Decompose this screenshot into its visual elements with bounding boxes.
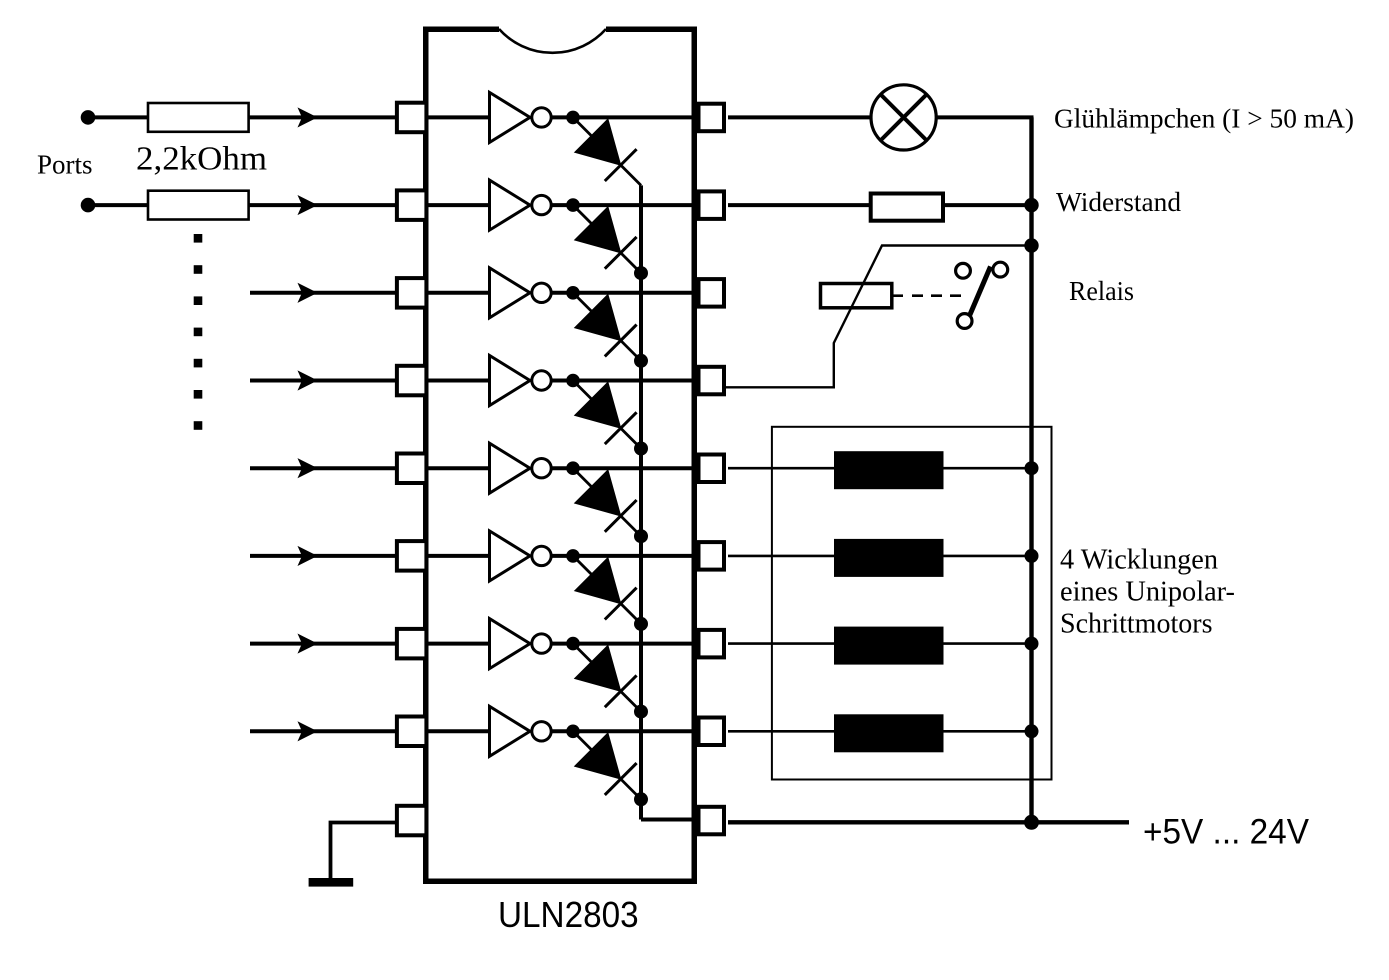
IC U1 pin-1 index notch arc: [499, 29, 606, 53]
resistor 2,2kOhm (input series) row 2: [148, 191, 249, 220]
wire: relay coil to +V bus and to output pin row 4: [724, 246, 1032, 388]
wire: output pin row 7 to motor winding 3: [728, 642, 836, 645]
svg-text:Ports: Ports: [37, 149, 93, 179]
wire: output pin row 2 to load resistor: [728, 203, 872, 207]
relay contact terminals: [956, 263, 971, 278]
pin 10 (right, output side) of U1: [699, 807, 725, 835]
wire: input row 7 to IC pin with direction arrow: [250, 642, 397, 646]
wire: inverter 3 output to output pin row 3: [551, 291, 694, 295]
pin 15 (right, output side) of U1: [699, 279, 725, 307]
stepper motor outline box: [772, 427, 1052, 780]
node: winding 2 junction on +V bus: [1025, 549, 1039, 563]
wire: winding 2 to +V bus: [944, 555, 1032, 558]
node: winding 1 junction on +V bus: [1025, 461, 1039, 475]
node: junction dot channel 6 output: [566, 549, 580, 563]
ground symbol: [309, 878, 354, 887]
wire: output pin row 1 to lamp: [728, 115, 872, 119]
svg-text:Glühlämpchen (I > 50 mA): Glühlämpchen (I > 50 mA): [1054, 104, 1354, 134]
wire: input row 1 to IC pin with direction arrow: [249, 115, 397, 119]
arrowhead input row 8: [299, 722, 317, 740]
node: resistor junction on +V bus: [1024, 198, 1038, 212]
arrowhead input row 6: [299, 547, 317, 565]
svg-text:Relais: Relais: [1069, 276, 1134, 306]
inverter/darlington driver U1 channel 7: [490, 619, 552, 669]
node: junction dot channel 7 output: [566, 637, 580, 651]
node: junction dot channel 5 output: [566, 461, 580, 475]
svg-text:ULN2803: ULN2803: [498, 894, 639, 935]
inverter/darlington driver U1 channel 8: [490, 706, 552, 756]
wire: input pin 2 to inverter 2 inside IC: [428, 203, 490, 207]
pin 3 (left, input side) of U1: [397, 278, 427, 308]
svg-text:eines Unipolar-: eines Unipolar-: [1060, 577, 1235, 608]
node: junction dot channel 4 output: [566, 374, 580, 388]
wire: input row 6 to IC pin with direction arrow: [250, 554, 397, 558]
wire: port 2 to series resistor: [94, 203, 149, 207]
flyback diode D8 to common bus: [573, 731, 641, 799]
wire: inverter 2 output to output pin row 2: [551, 203, 694, 207]
pin 14 (right, output side) of U1: [699, 367, 725, 395]
pin 4 (left, input side) of U1: [397, 366, 427, 396]
wire: inverter 1 output to output pin row 1: [551, 115, 694, 119]
motor winding L2 (black bar): [834, 539, 944, 577]
node: diode D4 junction on common bus: [634, 442, 648, 456]
node: diode D8 junction on common bus: [634, 792, 648, 806]
wire: input row 2 to IC pin with direction arrow: [249, 203, 397, 207]
svg-text:Widerstand: Widerstand: [1056, 187, 1182, 217]
node: diode D7 junction on common bus: [634, 705, 648, 719]
port input node dot 1: [81, 110, 96, 125]
node: junction dot channel 8 output: [566, 725, 580, 739]
wire: lamp to +V bus: [936, 115, 1033, 119]
wire: COM pin (row 9) to +V supply: [728, 820, 1129, 824]
wire: input row 3 to IC pin with direction arrow: [250, 291, 397, 295]
flyback diode D6 to common bus: [573, 556, 641, 624]
flyback diode D4 to common bus: [573, 381, 641, 449]
resistor 2,2kOhm (input series) row 1: [148, 103, 249, 132]
inverter/darlington driver U1 channel 2: [490, 180, 552, 230]
svg-text:4 Wicklungen: 4 Wicklungen: [1060, 545, 1218, 576]
IC U1 body bottom edge: [423, 879, 697, 885]
pin 12 (right, output side) of U1: [699, 542, 725, 570]
port input node dot 2: [81, 198, 96, 213]
mechanical link (dashed) coil to contact: [893, 294, 903, 297]
flyback diode D1 to common bus: [573, 117, 641, 185]
pin 1 (left, input side) of U1: [397, 103, 427, 133]
wire: input pin 5 to inverter 5 inside IC: [428, 466, 490, 470]
wire: input pin 6 to inverter 6 inside IC: [428, 554, 490, 558]
wire: output pin row 6 to motor winding 2: [728, 555, 836, 558]
node: junction dot channel 2 output: [566, 198, 580, 212]
wire: input row 5 to IC pin with direction arrow: [250, 466, 397, 470]
motor winding L1 (black bar): [834, 451, 944, 489]
inverter/darlington driver U1 channel 4: [490, 356, 552, 406]
arrowhead input row 7: [299, 635, 317, 653]
node: supply junction on +V bus: [1024, 815, 1039, 830]
IC U1 ULN2803 body left edge: [423, 27, 429, 885]
node: diode D2 junction on common bus: [634, 266, 648, 280]
flyback diode D2 to common bus: [573, 205, 641, 273]
flyback diode D7 to common bus: [573, 644, 641, 712]
resistor (Widerstand) R load: [871, 194, 943, 221]
wire: winding 1 to +V bus: [944, 467, 1032, 470]
pin 16 (right, output side) of U1: [699, 191, 725, 219]
inverter/darlington driver U1 channel 6: [490, 531, 552, 581]
wire: inverter 7 output to output pin row 7: [551, 642, 694, 646]
relay coil K1: [821, 284, 892, 308]
wire: input pin 7 to inverter 7 inside IC: [428, 642, 490, 646]
arrowhead input row 3: [299, 284, 317, 302]
wire: inverter 8 output to output pin row 8: [551, 729, 694, 733]
wire: winding 4 to +V bus: [944, 730, 1032, 733]
pin 13 (right, output side) of U1: [699, 455, 725, 483]
pin 6 (left, input side) of U1: [397, 541, 427, 571]
arrowhead input row 5: [299, 459, 317, 477]
wire: inverter 5 output to output pin row 5: [551, 466, 694, 470]
IC U1 body right edge: [692, 27, 698, 885]
arrowhead input row 1: [299, 108, 317, 126]
node: winding 3 junction on +V bus: [1025, 637, 1039, 651]
inverter/darlington driver U1 channel 5: [490, 443, 552, 493]
flyback diode D5 to common bus: [573, 468, 641, 536]
relay contact lever: [970, 267, 991, 316]
node: winding 4 junction on +V bus: [1025, 724, 1039, 738]
wire: internal flyback diode common bus: [639, 185, 643, 819]
flyback diode D3 to common bus: [573, 293, 641, 361]
node: diode D5 junction on common bus: [634, 529, 648, 543]
node: junction dot channel 1 output: [566, 111, 580, 125]
wire: +V supply bus (vertical): [1029, 117, 1033, 822]
wire: output pin row 5 to motor winding 1: [728, 467, 836, 470]
inverter/darlington driver U1 channel 3: [490, 268, 552, 318]
motor winding L4 (black bar): [834, 714, 944, 752]
node: diode D6 junction on common bus: [634, 617, 648, 631]
wire: input pin 4 to inverter 4 inside IC: [428, 379, 490, 383]
wire: input row 8 to IC pin with direction arrow: [250, 729, 397, 733]
wire: output pin row 8 to motor winding 4: [728, 730, 836, 733]
pin 2 (left, input side) of U1: [397, 190, 427, 220]
svg-text:+5V ... 24V: +5V ... 24V: [1143, 812, 1310, 851]
pin 5 (left, input side) of U1: [397, 454, 427, 484]
node: junction dot channel 3 output: [566, 286, 580, 300]
node: relay junction on +V bus: [1024, 238, 1038, 252]
pin 9 (left, input side) of U1: [397, 806, 427, 836]
inverter/darlington driver U1 channel 1: [490, 92, 552, 142]
IC U1 body top edge with pin-1 notch gap: [423, 27, 499, 33]
lamp (Gluehlaempchen) circle-X symbol: [871, 85, 936, 150]
ellipsis dots (remaining port lines implied): [194, 234, 203, 430]
motor winding L3 (black bar): [834, 627, 944, 665]
pin 17 (right, output side) of U1: [699, 104, 725, 132]
pin 10 (right, output side) of U1: [699, 718, 725, 746]
wire: input pin 8 to inverter 8 inside IC: [428, 729, 490, 733]
pin 8 (left, input side) of U1: [397, 717, 427, 747]
svg-text:Schrittmotors: Schrittmotors: [1060, 609, 1213, 640]
pin 11 (right, output side) of U1: [699, 630, 725, 658]
wire: port 1 to series resistor: [94, 115, 149, 119]
wire: inverter 6 output to output pin row 6: [551, 554, 694, 558]
svg-text:2,2kOhm: 2,2kOhm: [136, 140, 267, 177]
arrowhead input row 2: [299, 196, 317, 214]
node: diode D3 junction on common bus: [634, 354, 648, 368]
wire: input pin 3 to inverter 3 inside IC: [428, 291, 490, 295]
wire: input row 4 to IC pin with direction arrow: [250, 379, 397, 383]
arrowhead input row 4: [299, 372, 317, 390]
wire: inverter 4 output to output pin row 4: [551, 379, 694, 383]
pin 7 (left, input side) of U1: [397, 629, 427, 659]
wire: winding 3 to +V bus: [944, 642, 1032, 645]
wire: resistor to +V bus: [945, 203, 1032, 207]
wire: GND pin to ground symbol: [331, 823, 398, 879]
wire: input pin 1 to inverter 1 inside IC: [428, 115, 490, 119]
